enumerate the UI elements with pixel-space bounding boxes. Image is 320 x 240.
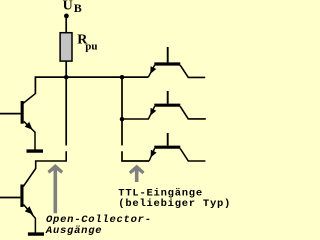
svg-text:Open-Collector-: Open-Collector-	[46, 214, 152, 226]
svg-text:Ausgänge: Ausgänge	[45, 225, 102, 237]
svg-text:U: U	[63, 0, 73, 14]
svg-text:pu: pu	[85, 40, 97, 52]
svg-text:B: B	[74, 1, 82, 15]
svg-text:(beliebiger Typ): (beliebiger Typ)	[118, 198, 231, 210]
